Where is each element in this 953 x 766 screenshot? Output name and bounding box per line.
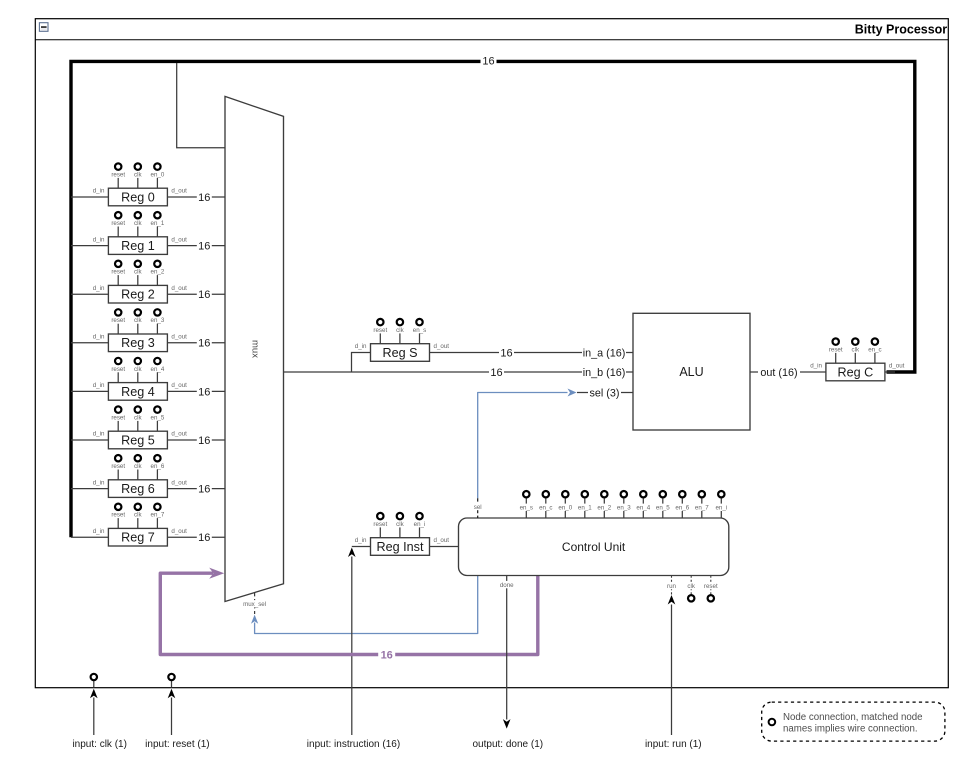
svg-text:clk: clk bbox=[134, 463, 142, 470]
svg-text:mux: mux bbox=[250, 340, 261, 358]
svg-text:Reg 6: Reg 6 bbox=[121, 482, 155, 496]
svg-text:16: 16 bbox=[500, 347, 512, 359]
svg-text:Reg 0: Reg 0 bbox=[121, 190, 155, 204]
register Reg 4 bbox=[93, 358, 187, 400]
wire: bus to Reg 0 d_in bbox=[71, 196, 108, 198]
wire: Reg 0 d_out to mux (16) bbox=[167, 196, 225, 198]
svg-text:d_out: d_out bbox=[171, 236, 187, 243]
svg-text:clk: clk bbox=[134, 414, 142, 421]
svg-text:clk: clk bbox=[396, 327, 404, 334]
control unit box bbox=[459, 498, 729, 576]
svg-text:en_c: en_c bbox=[868, 346, 881, 353]
collapse icon bbox=[39, 23, 48, 32]
svg-text:d_in: d_in bbox=[93, 431, 105, 438]
svg-text:Reg 5: Reg 5 bbox=[121, 433, 155, 447]
svg-text:clk: clk bbox=[134, 366, 142, 373]
svg-text:en_5: en_5 bbox=[151, 414, 165, 421]
wire: bus to Reg 3 d_in bbox=[71, 342, 108, 344]
svg-text:16: 16 bbox=[198, 241, 210, 253]
pin: Control Unit sel (dashed stub) bbox=[477, 498, 479, 518]
register Reg 6 bbox=[93, 455, 187, 497]
svg-text:16: 16 bbox=[198, 386, 210, 398]
svg-text:Reg 7: Reg 7 bbox=[121, 531, 155, 545]
wire: blue sel net from Control Unit down and left to mux_sel bbox=[255, 519, 478, 634]
wire: ALU out (16) to Reg C d_in bbox=[750, 371, 826, 373]
svg-text:done: done bbox=[500, 582, 514, 589]
svg-text:output: done (1): output: done (1) bbox=[472, 739, 543, 750]
svg-text:en_1: en_1 bbox=[151, 220, 165, 227]
wire: Reg 7 d_out to mux (16) bbox=[167, 536, 225, 538]
svg-text:en_6: en_6 bbox=[675, 505, 689, 512]
svg-text:d_in: d_in bbox=[93, 285, 105, 292]
svg-text:d_in: d_in bbox=[93, 479, 105, 486]
wire: mux output 16-bit bus to ALU in_b bbox=[284, 371, 634, 373]
svg-text:en_i: en_i bbox=[715, 505, 727, 512]
svg-text:16: 16 bbox=[198, 192, 210, 204]
svg-text:d_in: d_in bbox=[355, 343, 367, 350]
svg-text:en_6: en_6 bbox=[151, 463, 165, 470]
label: purple 16 bbox=[378, 649, 395, 661]
svg-text:d_out: d_out bbox=[434, 343, 450, 350]
svg-text:en_0: en_0 bbox=[558, 505, 572, 512]
svg-text:Bitty Processor: Bitty Processor bbox=[855, 23, 948, 37]
register Reg Inst bbox=[355, 513, 449, 555]
wire: done output down and out of the frame bbox=[506, 576, 508, 720]
svg-text:clk: clk bbox=[852, 346, 860, 353]
svg-text:Reg 2: Reg 2 bbox=[121, 288, 155, 302]
op-block ALU bbox=[633, 313, 750, 430]
register Reg C bbox=[810, 338, 904, 380]
pin label: ALU in_a (16) bbox=[582, 347, 626, 358]
svg-text:Reg 1: Reg 1 bbox=[121, 239, 155, 253]
svg-text:reset: reset bbox=[111, 463, 125, 470]
svg-text:en_3: en_3 bbox=[617, 505, 631, 512]
svg-text:d_in: d_in bbox=[93, 236, 105, 243]
wire: bus to Reg 2 d_in bbox=[71, 293, 108, 295]
nodes: Control Unit enable pins bbox=[523, 491, 529, 497]
svg-text:d_out: d_out bbox=[171, 285, 187, 292]
wire: Reg S d_in tap from mux output bus bbox=[352, 353, 371, 373]
register Reg 1 bbox=[93, 212, 187, 254]
svg-text:run: run bbox=[667, 583, 677, 590]
svg-text:Control Unit: Control Unit bbox=[562, 540, 626, 554]
svg-text:in_a (16): in_a (16) bbox=[583, 347, 626, 359]
svg-text:d_in: d_in bbox=[93, 188, 105, 195]
svg-text:d_in: d_in bbox=[93, 334, 105, 341]
svg-text:en_3: en_3 bbox=[151, 317, 165, 324]
wire: bus to Reg 4 d_in bbox=[71, 390, 108, 392]
svg-text:en_7: en_7 bbox=[151, 512, 165, 519]
svg-text:en_5: en_5 bbox=[656, 505, 670, 512]
svg-text:d_out: d_out bbox=[171, 528, 187, 535]
svg-text:d_out: d_out bbox=[171, 479, 187, 486]
svg-text:reset: reset bbox=[111, 269, 125, 276]
svg-text:16: 16 bbox=[198, 484, 210, 496]
register Reg 2 bbox=[93, 261, 187, 303]
wire: blue sel net from Control Unit sel pin up to ALU sel input bbox=[478, 393, 568, 499]
svg-text:reset: reset bbox=[111, 317, 125, 324]
svg-text:16: 16 bbox=[482, 56, 494, 68]
svg-text:Reg C: Reg C bbox=[838, 365, 874, 379]
svg-text:16: 16 bbox=[381, 649, 393, 661]
svg-text:d_in: d_in bbox=[810, 363, 822, 370]
svg-text:d_out: d_out bbox=[171, 431, 187, 438]
register Reg 3 bbox=[93, 309, 187, 351]
svg-text:input: clk (1): input: clk (1) bbox=[72, 739, 126, 750]
register Reg 0 bbox=[93, 163, 187, 205]
node: input clk bbox=[93, 681, 95, 688]
svg-text:en_0: en_0 bbox=[151, 171, 165, 178]
svg-text:sel: sel bbox=[474, 504, 482, 511]
svg-text:clk: clk bbox=[687, 583, 695, 590]
wire: Reg 3 d_out to mux (16) bbox=[167, 342, 225, 344]
svg-text:reset: reset bbox=[111, 220, 125, 227]
svg-text:reset: reset bbox=[373, 327, 387, 334]
svg-text:d_in: d_in bbox=[93, 528, 105, 535]
svg-text:en_1: en_1 bbox=[578, 505, 592, 512]
wire: run input up into Control Unit bbox=[671, 576, 673, 596]
svg-text:en_4: en_4 bbox=[151, 366, 165, 373]
svg-text:16: 16 bbox=[490, 367, 502, 379]
pin label: ALU in_b (16) bbox=[582, 367, 626, 378]
pin: mux_sel dashed stub and label bbox=[254, 593, 256, 614]
svg-text:clk: clk bbox=[134, 171, 142, 178]
svg-text:mux_sel: mux_sel bbox=[243, 601, 266, 608]
wire: Reg S d_out to ALU in_a (16) bbox=[430, 352, 634, 354]
svg-text:Node connection, matched node: Node connection, matched node bbox=[783, 712, 923, 723]
svg-text:16: 16 bbox=[198, 338, 210, 350]
wire: bus to Reg 1 d_in bbox=[71, 245, 108, 247]
svg-text:reset: reset bbox=[829, 346, 843, 353]
svg-text:clk: clk bbox=[134, 317, 142, 324]
wire: Reg 4 d_out to mux (16) bbox=[167, 390, 225, 392]
svg-text:input: instruction (16): input: instruction (16) bbox=[307, 739, 400, 750]
svg-text:d_in: d_in bbox=[93, 382, 105, 389]
svg-text:input: run (1): input: run (1) bbox=[645, 739, 702, 750]
wire: thick 16-bit bus from Reg C d_out up over the top and down the left side bbox=[71, 61, 915, 537]
svg-text:reset: reset bbox=[111, 414, 125, 421]
svg-text:en_4: en_4 bbox=[636, 505, 650, 512]
title bar separator bbox=[35, 39, 948, 41]
svg-text:reset: reset bbox=[111, 171, 125, 178]
register Reg 5 bbox=[93, 406, 187, 448]
svg-text:clk: clk bbox=[134, 220, 142, 227]
svg-text:en_2: en_2 bbox=[597, 505, 611, 512]
svg-text:out (16): out (16) bbox=[760, 367, 797, 379]
svg-text:reset: reset bbox=[373, 521, 387, 528]
register Reg 7 bbox=[93, 504, 187, 546]
svg-text:clk: clk bbox=[134, 269, 142, 276]
wire: Reg C d_out stub to thick bus bbox=[885, 371, 895, 373]
svg-text:d_in: d_in bbox=[355, 537, 367, 544]
wire: sel (3) stub into ALU bbox=[577, 392, 633, 394]
svg-text:d_out: d_out bbox=[889, 363, 905, 370]
legend: node connection note bbox=[762, 702, 945, 741]
wire: instruction input up to Reg Inst d_in bbox=[351, 557, 353, 736]
svg-text:16: 16 bbox=[198, 289, 210, 301]
wire: bus to Reg 5 d_in bbox=[71, 439, 108, 441]
label: 16 on top bus bbox=[481, 55, 497, 67]
svg-text:d_out: d_out bbox=[171, 334, 187, 341]
wire: Reg 2 d_out to mux (16) bbox=[167, 293, 225, 295]
svg-text:clk: clk bbox=[134, 512, 142, 519]
svg-text:names implies wire connection.: names implies wire connection. bbox=[783, 724, 918, 735]
svg-text:en_s: en_s bbox=[520, 505, 533, 512]
svg-text:Reg Inst: Reg Inst bbox=[377, 540, 424, 554]
svg-text:16: 16 bbox=[198, 532, 210, 544]
wire: Reg 5 d_out to mux (16) bbox=[167, 439, 225, 441]
svg-text:d_out: d_out bbox=[171, 382, 187, 389]
wire: Reg 6 d_out to mux (16) bbox=[167, 488, 225, 490]
register Reg S bbox=[355, 319, 449, 361]
svg-text:en_2: en_2 bbox=[151, 269, 165, 276]
wire: bus to Reg 6 d_in bbox=[71, 488, 108, 490]
wire: bus tap to mux input 0 bbox=[177, 63, 225, 148]
svg-text:reset: reset bbox=[111, 366, 125, 373]
svg-text:reset: reset bbox=[704, 583, 718, 590]
svg-text:d_out: d_out bbox=[434, 537, 450, 544]
svg-text:16: 16 bbox=[198, 435, 210, 447]
node: input reset bbox=[171, 681, 173, 688]
svg-text:input: reset (1): input: reset (1) bbox=[145, 739, 209, 750]
svg-text:Reg S: Reg S bbox=[382, 346, 417, 360]
svg-text:Reg 4: Reg 4 bbox=[121, 385, 155, 399]
mux (8+ input multiplexer trapezoid) bbox=[225, 96, 284, 601]
svg-text:sel (3): sel (3) bbox=[590, 387, 620, 399]
svg-text:en_s: en_s bbox=[413, 327, 426, 334]
svg-text:en_c: en_c bbox=[539, 505, 552, 512]
svg-text:clk: clk bbox=[396, 521, 404, 528]
svg-text:reset: reset bbox=[111, 512, 125, 519]
svg-text:en_7: en_7 bbox=[695, 505, 709, 512]
wire: bus to Reg 7 d_in bbox=[71, 536, 108, 538]
node: Control Unit reset bbox=[710, 576, 712, 595]
svg-text:d_out: d_out bbox=[171, 188, 187, 195]
svg-text:in_b (16): in_b (16) bbox=[583, 367, 626, 379]
svg-text:en_i: en_i bbox=[414, 521, 426, 528]
node: Control Unit clk bbox=[690, 576, 692, 595]
wire: purple 16-bit bus from Control Unit to mux input bbox=[160, 573, 538, 654]
wire: Reg Inst d_out to Control Unit bbox=[430, 546, 459, 548]
svg-text:ALU: ALU bbox=[679, 365, 703, 379]
wire: Reg 1 d_out to mux (16) bbox=[167, 245, 225, 247]
svg-text:Reg 3: Reg 3 bbox=[121, 336, 155, 350]
